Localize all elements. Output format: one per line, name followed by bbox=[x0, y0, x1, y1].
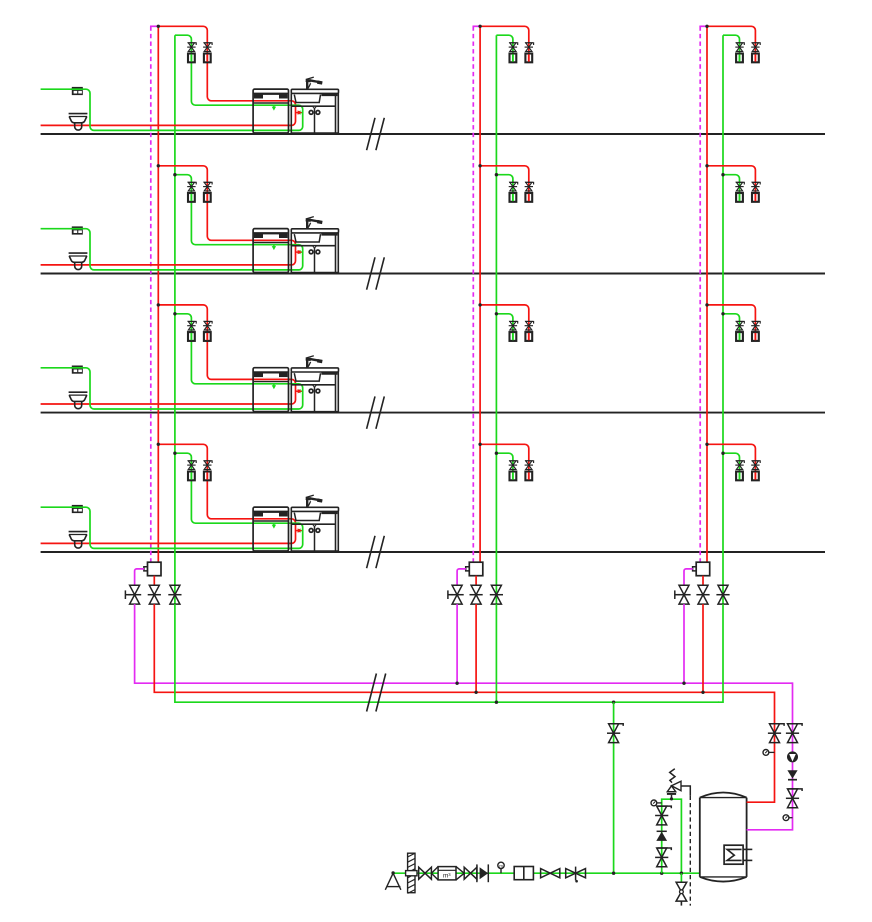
thermometer hot outlet bbox=[763, 750, 769, 756]
node riser1 hot top bbox=[157, 25, 160, 28]
cold inlet valve lower bbox=[658, 848, 672, 850]
wall sleeve bbox=[408, 853, 415, 893]
cold tap valve riser3 floor1 bbox=[736, 43, 745, 45]
cold branch pipe riser3 floor4 bbox=[723, 453, 740, 480]
hot supply arrow to sink floor4 bbox=[296, 530, 298, 532]
dishwasher feed arrow floor1 bbox=[273, 105, 275, 107]
cold supply arrow to sink floor2 bbox=[301, 251, 303, 253]
floor slab line 3 bbox=[41, 412, 825, 414]
svg-text:m³: m³ bbox=[443, 873, 451, 880]
cold branch pipe floor2 bbox=[41, 175, 303, 270]
cold branch pipe riser3 floor2 bbox=[723, 175, 740, 202]
cold tap valve riser3 floor3 bbox=[736, 321, 745, 323]
pipe break mark on floor line 1 bbox=[367, 118, 375, 150]
cold tap valve riser1 floor2 bbox=[188, 182, 197, 184]
dishwasher feed arrow floor3 bbox=[273, 384, 275, 386]
hot branch pipe riser2 floor3 bbox=[480, 305, 529, 341]
city connection point bbox=[391, 871, 394, 874]
service valve 2 bbox=[566, 869, 586, 878]
cold feed shut-off valve bbox=[609, 724, 623, 726]
cold shut-off valve riser1 bbox=[170, 585, 180, 604]
cistern floor2 bbox=[72, 226, 83, 234]
sink countertop floor4 bbox=[291, 507, 338, 511]
cold branch pipe riser2 floor4 bbox=[496, 453, 513, 480]
cold water riser 1 bbox=[174, 35, 176, 604]
cold tap valve riser3 floor2 bbox=[736, 182, 745, 184]
hot branch pipe floor1 bbox=[41, 26, 296, 125]
hot branch pipe riser3 floor3 bbox=[707, 305, 755, 341]
cold tap valve riser2 floor4 bbox=[509, 461, 518, 463]
circulation pipe to valve riser2 bbox=[457, 569, 466, 585]
circulation riser 2 (dashed) bbox=[472, 26, 474, 562]
cold tap valve riser3 floor4 bbox=[736, 461, 745, 463]
hot water heater tank bbox=[700, 798, 747, 877]
drain valve at heater bbox=[680, 873, 682, 882]
node riser2 cold floor4 bbox=[495, 452, 498, 455]
sink bowl floor3 bbox=[294, 373, 320, 381]
cold branch pipe riser2 floor2 bbox=[496, 175, 513, 202]
cold supply arrow to sink floor1 bbox=[301, 112, 303, 114]
circulation pipe to valve riser1 bbox=[135, 569, 145, 585]
cold tap valve riser2 floor3 bbox=[509, 321, 518, 323]
circulation balancing unit riser2 bbox=[469, 562, 483, 576]
cold water riser 2 bbox=[495, 35, 497, 604]
hot drop riser2 bbox=[475, 604, 477, 692]
cold feed drop to service line bbox=[613, 702, 615, 873]
svg-text:m: m bbox=[499, 863, 503, 868]
cold supply arrow to sink floor4 bbox=[301, 530, 303, 532]
check valve cold inlet bbox=[657, 830, 667, 832]
node riser3 cold floor4 bbox=[721, 452, 724, 455]
sink bowl floor2 bbox=[294, 234, 320, 242]
hot tap valve riser2 floor1 bbox=[525, 43, 534, 45]
dishwasher floor2 bbox=[253, 229, 288, 273]
circulation balancing unit riser3 bbox=[696, 562, 710, 576]
hot branch pipe riser2 floor4 bbox=[480, 444, 529, 480]
sink bowl floor1 bbox=[294, 95, 320, 103]
circulation pipe to collector bbox=[135, 604, 793, 683]
node riser1 hot floor3 bbox=[157, 303, 160, 306]
toilet floor1 bbox=[69, 113, 88, 115]
hot supply arrow to sink floor3 bbox=[296, 390, 298, 392]
circulation riser 2 top link bbox=[473, 25, 481, 27]
sink countertop floor2 bbox=[291, 229, 338, 233]
entry gate valve bbox=[419, 867, 432, 879]
hot outlet pipe bbox=[747, 692, 775, 803]
cistern floor3 bbox=[72, 366, 83, 374]
hot outlet valve bbox=[770, 724, 784, 726]
circulation shut-off valve riser3 bbox=[679, 585, 689, 604]
hot tap valve riser1 floor3 bbox=[204, 321, 213, 323]
hot tap valve riser1 floor2 bbox=[204, 182, 213, 184]
node service/drop bbox=[612, 872, 615, 875]
sink cabinet floor1 bbox=[290, 93, 292, 133]
node riser1 cold floor3 bbox=[173, 312, 176, 315]
cold supply arrow to sink floor3 bbox=[301, 390, 303, 392]
cold branch pipe riser2 floor1 bbox=[496, 35, 513, 62]
node cold collector to heater bbox=[612, 701, 615, 704]
hot water riser 3 bbox=[706, 26, 708, 562]
circulation balancing unit riser1 bbox=[148, 562, 162, 576]
check valve at meter bbox=[480, 867, 489, 879]
thermometer circulation bbox=[783, 815, 789, 821]
cold branch pipe floor1 bbox=[41, 35, 303, 130]
cold tap valve riser2 floor2 bbox=[509, 182, 518, 184]
hot branch pipe riser3 floor4 bbox=[707, 444, 755, 480]
hot drop riser3 bbox=[702, 604, 704, 692]
floor slab line 2 bbox=[41, 273, 825, 275]
cistern floor1 bbox=[72, 87, 83, 95]
cold pipe to collector bbox=[175, 604, 719, 702]
cold branch pipe riser2 floor3 bbox=[496, 314, 513, 341]
node riser3 cold floor3 bbox=[721, 312, 724, 315]
sink faucet floor2 bbox=[306, 219, 308, 229]
circulation riser 3 (dashed) bbox=[699, 26, 701, 562]
hot tap valve riser3 floor1 bbox=[752, 43, 761, 45]
water meter bbox=[431, 867, 438, 880]
check valve circulation bbox=[787, 770, 797, 778]
circulation riser 1 top link bbox=[150, 25, 158, 27]
dishwasher floor3 bbox=[253, 368, 288, 412]
cold service main bbox=[394, 872, 700, 874]
hot branch pipe floor3 bbox=[41, 305, 296, 404]
node riser2 cold floor3 bbox=[495, 312, 498, 315]
node safety column right bbox=[680, 872, 683, 875]
node riser1 cold floor4 bbox=[173, 452, 176, 455]
hot shut-off valve riser1 bbox=[149, 585, 159, 604]
sink countertop floor3 bbox=[291, 368, 338, 372]
node riser2 hot top bbox=[478, 25, 481, 28]
circulation drop riser3 bbox=[683, 604, 685, 683]
floor slab line 4 bbox=[41, 551, 825, 553]
hot branch pipe floor4 bbox=[41, 444, 296, 543]
node riser1 cold floor2 bbox=[173, 173, 176, 176]
toilet floor4 bbox=[69, 531, 88, 533]
meter outlet valve bbox=[464, 867, 477, 879]
toilet floor2 bbox=[69, 252, 88, 254]
cold branch pipe floor4 bbox=[41, 453, 303, 548]
cold inlet valve upper bbox=[658, 806, 672, 808]
hot tap valve riser3 floor4 bbox=[752, 461, 761, 463]
node riser3 hot floor3 bbox=[705, 303, 708, 306]
sink faucet floor3 bbox=[306, 358, 308, 368]
dishwasher feed arrow floor2 bbox=[273, 245, 275, 247]
cold shut-off valve riser2 bbox=[491, 585, 501, 604]
node riser1 hot floor2 bbox=[157, 164, 160, 167]
heat exchanger coil bbox=[724, 845, 743, 864]
node hot collector riser3 bbox=[701, 691, 704, 694]
node hot collector riser2 bbox=[474, 691, 477, 694]
circulation riser 1 (dashed) bbox=[150, 26, 152, 562]
circulation return pipe bbox=[747, 682, 793, 829]
hot branch pipe riser3 floor1 bbox=[707, 26, 755, 62]
node riser2 hot floor4 bbox=[478, 443, 481, 446]
node riser2 cold floor2 bbox=[495, 173, 498, 176]
circulation riser 3 top link bbox=[699, 25, 707, 27]
overflow guide line (dashed) bbox=[689, 796, 691, 906]
dishwasher floor4 bbox=[253, 507, 288, 551]
hot supply arrow to sink floor2 bbox=[296, 251, 298, 253]
pipe break mark on floor line 2 bbox=[367, 257, 375, 289]
dishwasher feed arrow floor4 bbox=[273, 523, 275, 525]
hot pipe below unit riser3 bbox=[702, 576, 704, 586]
circulation valve lower bbox=[788, 789, 802, 791]
hot tap valve riser3 floor2 bbox=[752, 182, 761, 184]
safety discharge pipe bbox=[681, 786, 690, 796]
hot water riser 1 bbox=[157, 26, 159, 562]
sink cabinet floor3 bbox=[290, 372, 292, 412]
hot pipe below unit riser1 bbox=[153, 576, 155, 586]
safety relief valve bbox=[670, 769, 675, 783]
circulation valve upper bbox=[788, 724, 802, 726]
circulation shut-off valve riser2 bbox=[452, 585, 462, 604]
hot branch pipe riser2 floor1 bbox=[480, 26, 529, 62]
cold drop riser3 bbox=[718, 604, 723, 702]
pressure gauge at heater bbox=[651, 800, 657, 806]
node riser1 hot floor4 bbox=[157, 443, 160, 446]
cold branch pipe floor3 bbox=[41, 314, 303, 409]
cold drop riser2 bbox=[495, 604, 497, 702]
hot pipe below unit riser2 bbox=[475, 576, 477, 586]
hot tap valve riser2 floor2 bbox=[525, 182, 534, 184]
node riser3 hot top bbox=[705, 25, 708, 28]
hot branch pipe floor2 bbox=[41, 166, 296, 265]
hot tap valve riser3 floor3 bbox=[752, 321, 761, 323]
safety column pipe bbox=[662, 799, 682, 873]
node riser3 hot floor4 bbox=[705, 443, 708, 446]
pipe break mark on floor line 4 bbox=[367, 536, 375, 568]
cold branch pipe riser3 floor1 bbox=[723, 35, 740, 62]
hot tap valve riser1 floor4 bbox=[204, 461, 213, 463]
toilet floor3 bbox=[69, 391, 88, 393]
dishwasher floor1 bbox=[253, 89, 288, 133]
sink cabinet floor2 bbox=[290, 233, 292, 273]
node riser2 hot floor2 bbox=[478, 164, 481, 167]
sink faucet floor4 bbox=[306, 497, 308, 507]
cold tap valve riser1 floor4 bbox=[188, 461, 197, 463]
cistern floor4 bbox=[72, 505, 83, 513]
cold tap valve riser2 floor1 bbox=[509, 43, 518, 45]
hot tap valve riser1 floor1 bbox=[204, 43, 213, 45]
cold branch pipe riser3 floor3 bbox=[723, 314, 740, 341]
circulation pump bbox=[787, 751, 798, 762]
circulation pipe to valve riser3 bbox=[684, 569, 693, 585]
hot water riser 2 bbox=[479, 26, 481, 562]
service valve 1 bbox=[541, 869, 560, 878]
pressure gauge at entry bbox=[498, 862, 504, 868]
node service/safety column bbox=[660, 872, 663, 875]
sink faucet floor1 bbox=[306, 79, 308, 89]
cold water riser 3 bbox=[722, 35, 724, 604]
hot shut-off valve riser3 bbox=[698, 585, 708, 604]
hot supply arrow to sink floor1 bbox=[296, 112, 298, 114]
floor slab line 1 bbox=[41, 133, 825, 135]
circulation shut-off valve riser1 bbox=[130, 585, 140, 604]
node circulation collector riser3 bbox=[682, 682, 685, 685]
node riser3 hot floor2 bbox=[705, 164, 708, 167]
cold tap valve riser1 floor1 bbox=[188, 43, 197, 45]
node cold collector riser2 bbox=[495, 701, 498, 704]
hot branch pipe riser2 floor2 bbox=[480, 166, 529, 202]
hot tap valve riser2 floor4 bbox=[525, 461, 534, 463]
node circulation collector riser2 bbox=[455, 682, 458, 685]
pipe break on collectors bbox=[367, 674, 377, 712]
sink cabinet floor4 bbox=[290, 511, 292, 551]
circulation drop riser2 bbox=[456, 604, 458, 683]
hot pipe to collector bbox=[154, 604, 774, 692]
hot shut-off valve riser2 bbox=[471, 585, 481, 604]
cold shut-off valve riser3 bbox=[718, 585, 728, 604]
strainer filter bbox=[514, 867, 533, 880]
sink bowl floor4 bbox=[294, 513, 320, 521]
hot tap valve riser2 floor3 bbox=[525, 321, 534, 323]
pipe break mark on floor line 3 bbox=[367, 396, 375, 428]
node riser3 cold floor2 bbox=[721, 173, 724, 176]
hot branch pipe riser3 floor2 bbox=[707, 166, 755, 202]
cold tap valve riser1 floor3 bbox=[188, 321, 197, 323]
node riser2 hot floor3 bbox=[478, 303, 481, 306]
sink countertop floor1 bbox=[291, 89, 338, 93]
